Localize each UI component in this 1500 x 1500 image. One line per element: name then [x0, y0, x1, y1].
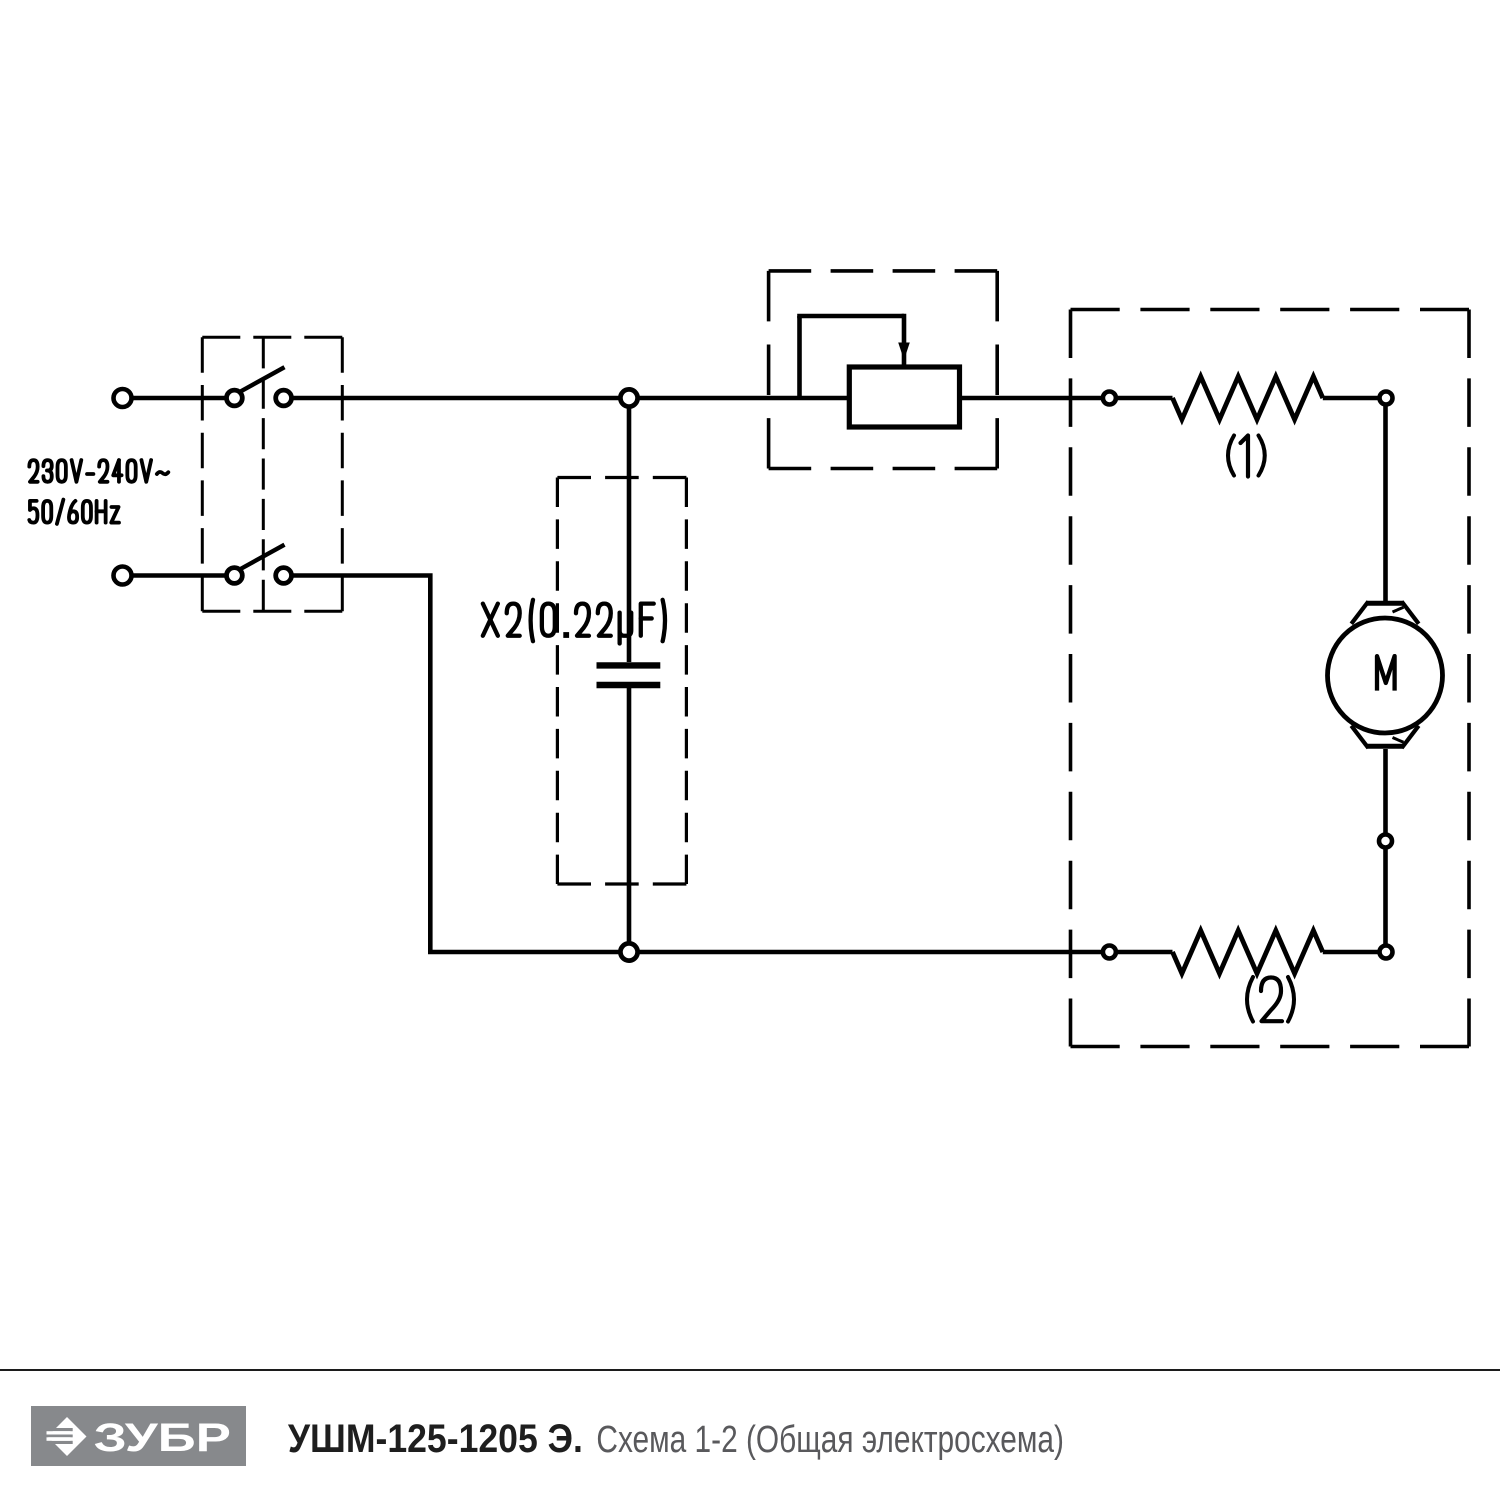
svg-text:ЗУБР: ЗУБР	[94, 1416, 231, 1460]
svg-text:УШМ-125-1205 Э.: УШМ-125-1205 Э.	[288, 1417, 583, 1461]
svg-text:Схема 1-2 (Общая электросхема): Схема 1-2 (Общая электросхема)	[596, 1419, 1064, 1461]
